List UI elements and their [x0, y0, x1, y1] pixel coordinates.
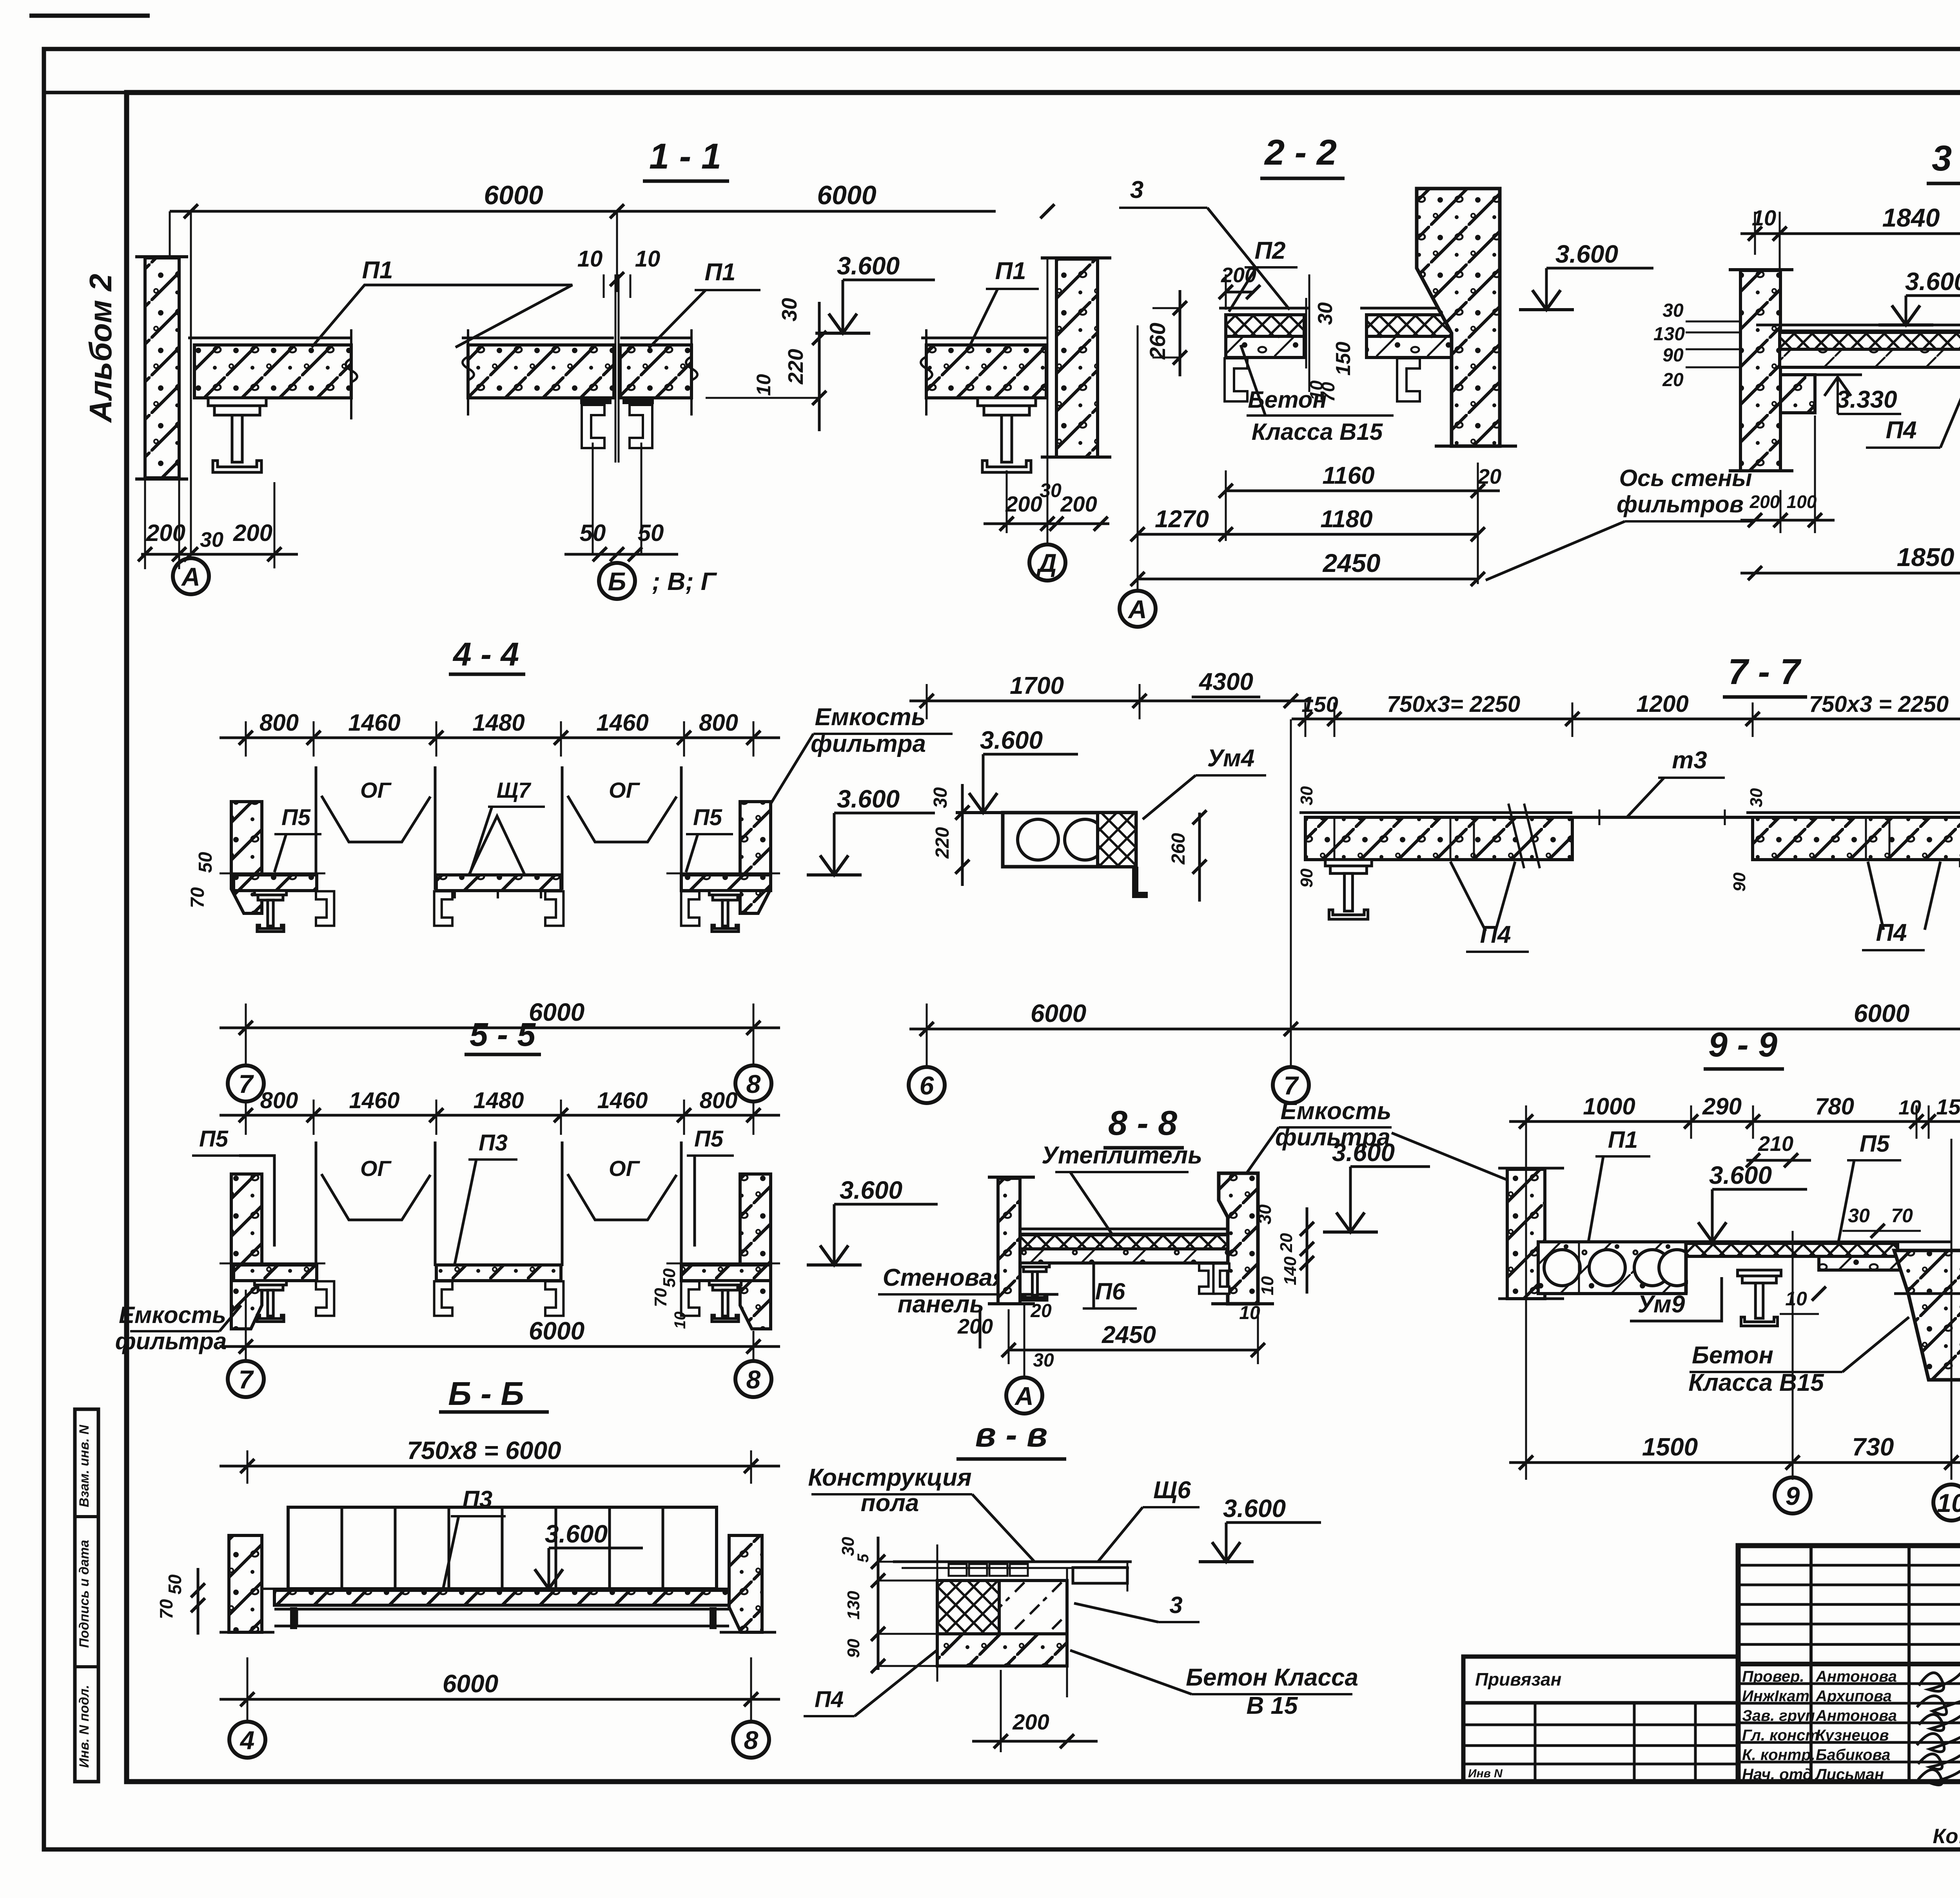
small I-beams and channels (4-4): [254, 891, 286, 932]
svg-text:800: 800: [260, 710, 299, 736]
left slab layered (screed+insulation+concrete): [1219, 307, 1309, 310]
svg-text:6000: 6000: [529, 998, 584, 1026]
joint gap lines at axis Б: [615, 274, 617, 463]
svg-text:30: 30: [838, 1537, 858, 1556]
svg-text:3.600: 3.600: [837, 252, 900, 280]
svg-text:5 - 5: 5 - 5: [470, 1016, 536, 1053]
deck slab (6-6): [274, 1590, 729, 1605]
svg-text:260: 260: [1168, 833, 1189, 865]
svg-text:150: 150: [1301, 692, 1338, 717]
bottom dim 1160 / 20: [1226, 490, 1500, 492]
svg-text:; В; Г: ; В; Г: [652, 567, 717, 595]
svg-text:Б: Б: [608, 567, 626, 596]
svg-text:800: 800: [700, 1088, 738, 1113]
svg-text:4300: 4300: [1198, 668, 1253, 695]
svg-text:1460: 1460: [348, 710, 400, 736]
top dims (5-5): [220, 1114, 780, 1117]
svg-text:Подпись и дата: Подпись и дата: [77, 1540, 92, 1648]
axis bubble А: [173, 558, 209, 594]
svg-text:750х3= 2250: 750х3= 2250: [1387, 691, 1520, 717]
svg-text:Ум9: Ум9: [1638, 1291, 1685, 1318]
insulation block (в-в): [937, 1581, 999, 1634]
svg-text:7: 7: [239, 1365, 254, 1394]
svg-text:800: 800: [260, 1088, 298, 1113]
svg-text:ОГ: ОГ: [609, 778, 641, 802]
svg-text:6: 6: [920, 1071, 935, 1100]
svg-text:П4: П4: [1480, 921, 1511, 948]
svg-text:3: 3: [1169, 1592, 1182, 1618]
top dimension line 6000+6000: [170, 210, 996, 213]
title block vertical dividers (left part): [1809, 1546, 1813, 1782]
svg-text:П1: П1: [995, 258, 1026, 285]
svg-text:1200: 1200: [1636, 691, 1688, 717]
svg-text:ОГ: ОГ: [360, 778, 392, 802]
deck slabs (4-4): [234, 875, 317, 891]
svg-text:200: 200: [1012, 1709, 1049, 1734]
svg-text:4: 4: [240, 1726, 255, 1755]
svg-text:90: 90: [1297, 868, 1316, 887]
bottom dim 1850 / 200 (3-3): [1740, 572, 1960, 575]
slab group 1 break slashes: [1508, 804, 1524, 868]
C-channel pair under joint: [580, 398, 654, 404]
svg-text:30: 30: [930, 787, 951, 808]
svg-text:5: 5: [855, 1553, 872, 1562]
joint lines: [1308, 274, 1310, 392]
left corner post (6-6): [229, 1535, 262, 1632]
svg-text:1270: 1270: [1155, 506, 1209, 533]
axis bubbles 7 8 (5-5): [228, 1361, 264, 1397]
svg-text:70: 70: [187, 887, 208, 908]
deck slabs (5-5): [234, 1265, 317, 1281]
svg-text:П1: П1: [1608, 1127, 1638, 1153]
svg-text:30: 30: [1033, 1350, 1054, 1371]
svg-text:50: 50: [580, 520, 606, 546]
svg-text:6000: 6000: [529, 1317, 584, 1345]
svg-text:9: 9: [1786, 1481, 1800, 1510]
svg-text:750х8 = 6000: 750х8 = 6000: [407, 1436, 561, 1464]
svg-text:3 - 3: 3 - 3: [1932, 138, 1960, 178]
svg-text:7 - 7: 7 - 7: [1728, 652, 1802, 692]
axis bubble Б: [599, 563, 635, 599]
svg-text:П4: П4: [815, 1687, 844, 1712]
svg-text:10: 10: [1937, 1488, 1960, 1517]
svg-text:800: 800: [699, 710, 738, 736]
svg-text:140: 140: [1281, 1256, 1300, 1285]
right wall (8-8): [1219, 1173, 1258, 1304]
axis bubbles 7 8 (4-4): [228, 1065, 264, 1102]
inner top band line extension: [44, 91, 127, 94]
svg-text:Щ7: Щ7: [497, 778, 532, 802]
svg-text:200: 200: [1005, 492, 1042, 516]
top dim chain (7-7 main): [1292, 718, 1960, 720]
svg-text:150: 150: [1332, 342, 1355, 376]
svg-text:Лисьман: Лисьман: [1815, 1766, 1884, 1783]
svg-text:Бабикова: Бабикова: [1816, 1746, 1890, 1764]
right slab layered: [1360, 307, 1459, 310]
svg-text:Емкость: Емкость: [1281, 1098, 1392, 1125]
svg-text:3.600: 3.600: [1223, 1494, 1286, 1523]
tank wall plates (5-5): [315, 1141, 318, 1266]
svg-text:750х3 = 2250: 750х3 = 2250: [1809, 691, 1949, 717]
svg-text:8: 8: [746, 1069, 761, 1098]
svg-text:1460: 1460: [597, 1088, 648, 1113]
svg-text:10: 10: [1258, 1276, 1277, 1295]
svg-text:Емкость: Емкость: [119, 1302, 226, 1328]
left corner post (5-5): [231, 1174, 262, 1329]
svg-text:50: 50: [638, 520, 664, 546]
svg-text:П5: П5: [281, 805, 311, 830]
svg-text:2450: 2450: [1102, 1321, 1156, 1348]
signature rows: [1738, 1682, 1960, 1685]
concrete block (в-в): [937, 1634, 1067, 1666]
svg-text:Утеплитель: Утеплитель: [1042, 1142, 1202, 1169]
slab layered (3-3): [1756, 324, 1960, 327]
left wall fragment (9-9): [1507, 1169, 1545, 1299]
svg-text:Бетон: Бетон: [1692, 1342, 1773, 1369]
svg-text:П5: П5: [1860, 1131, 1890, 1157]
svg-text:Ум4: Ум4: [1207, 745, 1255, 772]
slab П1 span 3 (right of joint): [620, 345, 691, 398]
svg-text:20: 20: [1030, 1301, 1052, 1321]
svg-text:10: 10: [577, 246, 603, 272]
svg-text:50: 50: [660, 1268, 679, 1287]
slab layered (8-8): [1020, 1228, 1228, 1230]
right corner post (6-6): [729, 1535, 762, 1632]
svg-text:Бетон Класса: Бетон Класса: [1186, 1664, 1358, 1691]
svg-text:6000: 6000: [817, 180, 876, 210]
svg-text:Класса В15: Класса В15: [1688, 1369, 1824, 1396]
svg-text:130: 130: [844, 1591, 863, 1620]
svg-text:2 - 2: 2 - 2: [1264, 132, 1337, 172]
left slab C-channel: [1225, 358, 1247, 401]
svg-text:К. контр.: К. контр.: [1742, 1746, 1815, 1764]
svg-text:Копировал Подлевская: Копировал Подлевская: [1933, 1825, 1960, 1848]
svg-text:П1: П1: [704, 259, 735, 286]
beams under deck (5-5): [254, 1281, 286, 1322]
svg-text:3.600: 3.600: [545, 1520, 608, 1548]
svg-text:Емкость: Емкость: [815, 704, 926, 731]
svg-text:Зав. груп: Зав. груп: [1742, 1707, 1815, 1724]
svg-text:П4: П4: [1876, 919, 1907, 946]
axis bubble Д: [1029, 544, 1065, 581]
ticks on middle slab (4-4): [454, 891, 456, 898]
I-beam under right slab: [978, 398, 1036, 472]
svg-text:1700: 1700: [1010, 672, 1064, 699]
svg-text:30: 30: [200, 528, 223, 552]
left margin stamp strip: [75, 1409, 98, 1782]
svg-text:20: 20: [1662, 370, 1684, 390]
svg-text:10: 10: [635, 246, 661, 272]
top dims 1700 4300 (7-7 left): [909, 700, 1313, 702]
deck layers to the right (9-9): [1686, 1241, 1951, 1243]
left wall with footing (3-3): [1740, 270, 1780, 471]
svg-text:70: 70: [651, 1288, 670, 1307]
svg-text:200: 200: [1749, 492, 1780, 512]
svg-text:Ось стены: Ось стены: [1619, 465, 1752, 491]
svg-text:Класса В15: Класса В15: [1252, 419, 1383, 445]
svg-text:Б - Б: Б - Б: [448, 1375, 524, 1412]
svg-text:В 15: В 15: [1247, 1692, 1298, 1719]
svg-text:1160: 1160: [1322, 462, 1374, 489]
right wall (concrete): [1056, 259, 1098, 457]
right slab edge (в-в): [1073, 1568, 1127, 1583]
hollow-core slab (axis 6): [1003, 813, 1136, 867]
svg-text:1460: 1460: [596, 710, 648, 736]
svg-text:30: 30: [1254, 1204, 1275, 1225]
svg-text:3.600: 3.600: [1905, 267, 1960, 296]
svg-text:П4: П4: [1886, 417, 1916, 444]
svg-text:220: 220: [784, 349, 808, 385]
tank wall plates (4-4): [315, 766, 318, 890]
svg-text:8: 8: [746, 1365, 761, 1394]
bottom dim 6000 (5-5): [220, 1345, 780, 1348]
title block outer box: [1738, 1546, 1960, 1782]
svg-text:Гл. конст: Гл. конст: [1742, 1727, 1819, 1744]
svg-text:3.600: 3.600: [980, 726, 1043, 754]
svg-text:фильтров: фильтров: [1617, 491, 1744, 517]
svg-text:1850: 1850: [1897, 543, 1955, 572]
bottom dim 2450 (8-8): [1009, 1349, 1258, 1352]
beam strip (6-6): [274, 1608, 729, 1611]
bottom dim 6000 (6-6): [220, 1698, 780, 1701]
svg-text:30: 30: [1747, 788, 1766, 807]
big concrete block (9-9): [1894, 1250, 1960, 1380]
svg-text:в - в: в - в: [975, 1415, 1048, 1454]
svg-text:Нач. отд: Нач. отд: [1742, 1766, 1812, 1783]
svg-text:Антонова: Антонова: [1815, 1668, 1897, 1685]
svg-text:П1: П1: [362, 257, 393, 284]
svg-text:200: 200: [146, 520, 185, 546]
svg-text:2450: 2450: [1322, 548, 1381, 577]
I-beam (9-9): [1738, 1270, 1781, 1326]
signature squiggles: [1919, 1672, 1960, 1691]
svg-text:20: 20: [1477, 465, 1501, 488]
svg-text:780: 780: [1815, 1093, 1854, 1120]
svg-text:200: 200: [957, 1315, 993, 1338]
svg-text:Архипова: Архипова: [1815, 1688, 1892, 1705]
svg-text:1480: 1480: [473, 1088, 524, 1113]
slab group 1 small vert marks: [1450, 817, 1452, 860]
svg-text:Кузнецов: Кузнецов: [1816, 1727, 1889, 1744]
svg-text:Д: Д: [1036, 548, 1057, 577]
right corner post (4-4): [740, 802, 771, 913]
left wall (concrete): [145, 258, 179, 478]
bare beam line т3: [1572, 816, 1753, 819]
svg-text:100: 100: [1787, 492, 1817, 512]
svg-text:А: А: [1127, 595, 1147, 624]
svg-text:3.600: 3.600: [1709, 1161, 1772, 1189]
svg-text:1480: 1480: [472, 710, 524, 736]
svg-text:220: 220: [932, 827, 953, 859]
left wall (8-8): [998, 1178, 1020, 1304]
svg-text:7: 7: [1284, 1071, 1299, 1100]
svg-text:1 - 1: 1 - 1: [649, 136, 721, 176]
svg-text:30: 30: [778, 298, 801, 321]
svg-text:6000: 6000: [443, 1670, 498, 1698]
svg-text:10: 10: [1785, 1288, 1807, 1310]
top dim chain (9-9): [1509, 1120, 1960, 1123]
right corner post (5-5): [740, 1174, 771, 1329]
svg-text:130: 130: [1653, 324, 1685, 345]
hollow-core slab (9-9): [1538, 1242, 1686, 1294]
svg-text:Стеновая: Стеновая: [883, 1264, 1007, 1291]
svg-text:4 - 4: 4 - 4: [452, 636, 519, 673]
axis bubbles 4 8 (6-6): [229, 1722, 265, 1758]
svg-text:Альбом 2: Альбом 2: [83, 274, 118, 423]
svg-text:200: 200: [1060, 492, 1097, 516]
slab П1 span 2 (left of joint): [468, 345, 614, 398]
svg-text:А: А: [181, 562, 200, 591]
axis line А: [190, 211, 192, 556]
svg-text:200: 200: [233, 520, 272, 546]
axis line Б: [616, 211, 618, 292]
svg-text:А: А: [1014, 1381, 1034, 1410]
svg-text:6000: 6000: [1031, 999, 1086, 1027]
top dims 800/1460/1480/1460/800 (4-4): [220, 737, 780, 739]
svg-text:20: 20: [1277, 1233, 1296, 1252]
svg-text:П5: П5: [199, 1126, 229, 1152]
svg-text:30: 30: [1314, 302, 1337, 325]
svg-text:Провер.: Провер.: [1742, 1668, 1804, 1685]
svg-text:30: 30: [1662, 300, 1684, 321]
svg-text:90: 90: [844, 1639, 863, 1658]
svg-text:П5: П5: [693, 805, 722, 830]
svg-text:730: 730: [1852, 1433, 1894, 1461]
svg-text:90: 90: [1730, 872, 1749, 891]
screed block dashed (в-в): [999, 1581, 1067, 1634]
svg-text:ИнжIкат: ИнжIкат: [1742, 1688, 1809, 1705]
svg-text:П6: П6: [1095, 1278, 1125, 1305]
axis line + bubble А (8-8): [1024, 1305, 1025, 1378]
tile row (в-в): [949, 1564, 967, 1576]
svg-text:1000: 1000: [1583, 1093, 1635, 1120]
svg-text:210: 210: [1758, 1132, 1793, 1156]
svg-text:П5: П5: [694, 1126, 724, 1152]
svg-text:П3: П3: [479, 1130, 508, 1156]
axis line and bubble А (2-2): [1137, 325, 1139, 590]
bottom dim 6000 (7-7 left): [909, 1028, 1313, 1031]
bottom dim 1500 730 (9-9): [1509, 1461, 1960, 1464]
registration mark top-left: [29, 14, 150, 18]
title block upper thin rows: [1738, 1564, 1960, 1567]
svg-text:7: 7: [239, 1069, 254, 1098]
svg-text:50: 50: [165, 1574, 185, 1595]
slab group 2 (7-7): [1746, 811, 1960, 814]
panel outline with dividers (6-6): [288, 1507, 717, 1589]
bottom dim 6000 6000 (7-7 main): [1291, 1028, 1960, 1031]
svg-text:290: 290: [1702, 1093, 1742, 1120]
svg-text:6000: 6000: [1854, 999, 1909, 1027]
title block thick divider: [1738, 1662, 1960, 1666]
beams (8-8): [1020, 1263, 1049, 1300]
bottom dim 2450: [1138, 578, 1478, 581]
svg-text:10: 10: [1898, 1096, 1921, 1119]
svg-text:Щ6: Щ6: [1153, 1477, 1191, 1504]
svg-text:т3: т3: [1672, 747, 1707, 774]
svg-text:30: 30: [1848, 1205, 1870, 1227]
right bay slab П1: [926, 345, 1046, 398]
attached table (Привязан): [1463, 1657, 1738, 1782]
bottom dim 1270 / 1180: [1138, 533, 1478, 536]
svg-text:1500: 1500: [1642, 1433, 1698, 1461]
svg-text:Инв. N подл.: Инв. N подл.: [77, 1685, 92, 1768]
axis bubbles 6 and 7 (7-7): [909, 1067, 945, 1103]
L-bracket below hollow slab: [1132, 867, 1148, 898]
svg-text:30: 30: [1297, 786, 1316, 805]
axis bubbles 9 10 (9-9): [1775, 1477, 1811, 1513]
bottom dim 6000 (4-4): [220, 1027, 780, 1029]
svg-text:30: 30: [1040, 479, 1062, 501]
svg-text:3.600: 3.600: [837, 785, 900, 813]
axis line Д: [1047, 259, 1049, 543]
svg-text:3.600: 3.600: [1555, 240, 1618, 268]
svg-text:Конструкция: Конструкция: [808, 1464, 971, 1491]
svg-text:ОГ: ОГ: [360, 1156, 392, 1181]
big right wall (concrete): [1417, 189, 1500, 446]
I-beam under slab 1: [208, 398, 266, 472]
svg-text:8: 8: [744, 1726, 759, 1755]
svg-text:50: 50: [195, 852, 216, 873]
svg-text:150: 150: [1936, 1094, 1960, 1119]
top dim 750x8=6000 (6-6): [220, 1465, 780, 1468]
svg-text:Инв N: Инв N: [1468, 1767, 1503, 1780]
svg-text:1180: 1180: [1320, 506, 1372, 533]
left corner post (4-4): [231, 802, 262, 913]
svg-text:1840: 1840: [1882, 203, 1940, 232]
svg-text:Привязан: Привязан: [1475, 1669, 1561, 1689]
svg-text:3: 3: [1130, 176, 1143, 203]
wall footing break lines: [144, 478, 146, 569]
svg-text:6000: 6000: [484, 180, 543, 210]
vertical ref lines (в-в): [936, 1544, 938, 1682]
svg-text:Антонова: Антонова: [1815, 1707, 1897, 1724]
svg-text:90: 90: [1662, 345, 1684, 366]
svg-text:8 - 8: 8 - 8: [1108, 1103, 1177, 1142]
svg-text:9 - 9: 9 - 9: [1708, 1025, 1777, 1064]
svg-text:3.600: 3.600: [1332, 1138, 1395, 1167]
svg-text:10: 10: [671, 1312, 689, 1329]
right slab C-channel: [1397, 358, 1420, 401]
svg-text:Взам. инв. N: Взам. инв. N: [77, 1424, 92, 1507]
svg-text:П2: П2: [1254, 237, 1285, 264]
svg-text:1460: 1460: [349, 1088, 399, 1113]
slab group 1 (7-7): [1299, 811, 1572, 814]
slab П1 span 1: [194, 345, 351, 398]
svg-text:260: 260: [1145, 323, 1170, 359]
svg-text:70: 70: [156, 1599, 176, 1619]
svg-text:ОГ: ОГ: [609, 1156, 641, 1181]
floor top lines (в-в): [893, 1561, 1132, 1563]
svg-text:3.600: 3.600: [840, 1176, 902, 1204]
svg-text:70: 70: [1891, 1205, 1913, 1227]
svg-text:10: 10: [753, 374, 775, 396]
